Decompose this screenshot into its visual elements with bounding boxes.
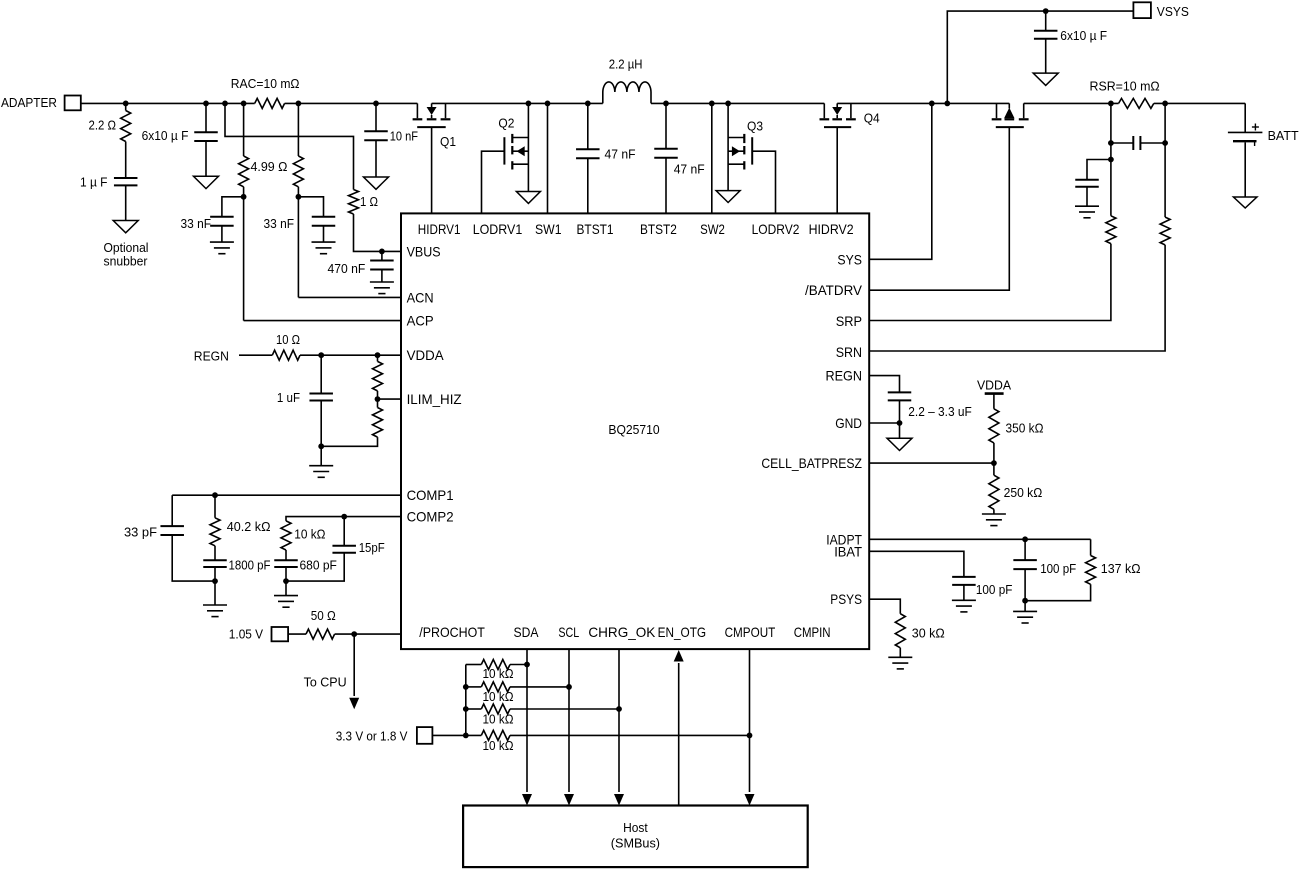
svg-text:VBUS: VBUS xyxy=(407,244,441,259)
wire 137k drop xyxy=(1090,539,1092,555)
wire IBAT line xyxy=(869,551,964,577)
inductor 2.2 uH xyxy=(603,82,651,103)
svg-text:137 kΩ: 137 kΩ xyxy=(1101,561,1141,576)
ground battery (arrow) xyxy=(1233,197,1257,208)
wire to CPU xyxy=(353,634,355,696)
wire COMP1 line xyxy=(172,494,401,496)
svg-text:RAC=10 mΩ: RAC=10 mΩ xyxy=(231,76,300,91)
wire VSYS cap lead xyxy=(1045,11,1047,31)
wire BTST1 upper xyxy=(587,103,589,149)
ground snubber (arrow) xyxy=(113,221,138,233)
svg-text:10 nF: 10 nF xyxy=(390,129,418,144)
wire pull-up r1 left xyxy=(466,664,482,666)
wire CMPOUT to host xyxy=(749,649,751,792)
resistor 10 ohm (REGN) xyxy=(272,350,300,360)
wire snubber bottom xyxy=(125,185,127,220)
node junction COMP2 xyxy=(341,514,347,520)
wire pull-up r1 right xyxy=(510,664,527,666)
wire rail RSR to battery xyxy=(1154,102,1245,104)
node junction r2 SCL xyxy=(566,684,572,690)
wire ILIM pin lead xyxy=(378,398,402,400)
node junction COMP1 foot xyxy=(212,578,218,584)
wire ACN branch vertical xyxy=(297,187,299,298)
wire COMP2 line xyxy=(286,517,401,521)
wire BATFET gate to /BATDRV xyxy=(869,127,1009,290)
transistor Q4 (high-side FET) xyxy=(823,103,825,118)
wire BTST2 lower xyxy=(665,158,667,214)
svg-text:470 nF: 470 nF xyxy=(328,261,366,276)
label battery plus xyxy=(1252,126,1259,128)
wire PSYS line xyxy=(869,599,900,614)
3.3V connector square xyxy=(417,727,433,744)
battery BATT plus plate xyxy=(1228,131,1263,133)
ground 10nF (arrow) xyxy=(364,177,389,189)
wire SRP to pin xyxy=(869,244,1111,321)
arrow EN_OTG into IC xyxy=(674,650,684,662)
wire Q2 gate to LODRV1 xyxy=(482,151,505,213)
node junction VBUS pin xyxy=(379,249,385,255)
wire SYS pin run xyxy=(869,103,932,259)
wire REGN cap bottom xyxy=(899,400,901,438)
wire SRP-SRN cap right lead xyxy=(1140,142,1165,144)
wire SW1 xyxy=(547,103,549,213)
svg-text:CELL_BATPRESZ: CELL_BATPRESZ xyxy=(761,456,862,471)
wire SRP sense drop xyxy=(1110,103,1112,143)
svg-text:/BATDRV: /BATDRV xyxy=(805,283,863,298)
1.05V connector square xyxy=(272,627,289,641)
svg-text:VDDA: VDDA xyxy=(407,348,445,363)
wire CHRG_OK to host xyxy=(618,649,620,792)
node junction r3 CHRG_OK xyxy=(616,706,622,712)
wire GND pin lead xyxy=(869,422,899,424)
svg-text:COMP2: COMP2 xyxy=(407,510,454,525)
wire SRN to pin xyxy=(869,245,1165,351)
label battery minus xyxy=(1254,142,1256,146)
wire rail inductor to Q4 xyxy=(651,102,824,104)
wire IBAT cap stem xyxy=(963,585,965,600)
arrow SCL into host xyxy=(564,794,574,806)
wire 33pF bottom xyxy=(172,535,215,581)
wire SRP gnd cap stem xyxy=(1086,187,1088,206)
wire 350k to junction xyxy=(993,443,995,463)
node junction VSYS cap xyxy=(1043,8,1049,14)
svg-text:3.3 V or 1.8 V: 3.3 V or 1.8 V xyxy=(336,728,408,743)
svg-text:PSYS: PSYS xyxy=(830,592,862,607)
wire adapter rail (input section) xyxy=(81,102,255,104)
transistor Q3 (low-side FET 2) xyxy=(727,103,729,190)
wire 250k lead xyxy=(993,463,995,475)
wire 1.05V lead xyxy=(288,633,306,635)
wire divider lower leads xyxy=(377,399,379,407)
wire IADPT line xyxy=(869,538,1090,540)
svg-text:SYS: SYS xyxy=(837,252,862,267)
capacitor 680 pF (COMP2) xyxy=(274,559,298,561)
resistor 10 kohm pull-up CMPOUT xyxy=(481,730,510,740)
svg-text:100 pF: 100 pF xyxy=(1040,561,1076,576)
resistor 4.99 ohm (ACP filter) xyxy=(239,156,249,187)
node junction GND xyxy=(897,420,903,426)
wire rail Q4 to BATFET xyxy=(837,102,1009,104)
VDDA supply bar xyxy=(985,392,1004,395)
svg-text:ACN: ACN xyxy=(407,290,434,305)
transistor BATFET xyxy=(996,103,998,118)
wire 10nF bottom xyxy=(375,140,377,177)
resistor 137 kohm xyxy=(1086,556,1096,585)
wire CELL_BATPRESZ line xyxy=(869,462,994,464)
svg-text:250 kΩ: 250 kΩ xyxy=(1004,485,1043,500)
node junction SRN cap xyxy=(1162,140,1168,146)
svg-text:350 kΩ: 350 kΩ xyxy=(1006,421,1044,436)
svg-text:BTST1: BTST1 xyxy=(577,222,614,237)
wire COMP2 foot stem xyxy=(285,581,287,596)
node junction input cap xyxy=(203,101,209,107)
svg-text:Q4: Q4 xyxy=(864,110,880,125)
wire Q3 gate to LODRV2 xyxy=(752,151,775,213)
node junction bus r3 xyxy=(463,706,469,712)
svg-text:33 nF: 33 nF xyxy=(181,216,212,231)
wire 40.2k lead xyxy=(214,495,216,518)
resistor ILIM divider lower xyxy=(373,408,383,438)
wire VDDA stem xyxy=(993,394,995,409)
resistor SRN filter xyxy=(1160,217,1170,245)
svg-text:10 kΩ: 10 kΩ xyxy=(483,712,514,727)
svg-text:GND: GND xyxy=(835,416,862,431)
svg-text:2.2 Ω: 2.2 Ω xyxy=(89,118,117,133)
resistor RAC=10 mohm (horizontal) xyxy=(255,98,285,108)
wire ACP branch upper xyxy=(243,103,245,156)
node junction ACN filter xyxy=(296,194,302,200)
node junction VDDA divider top xyxy=(375,352,381,358)
wire 1uF lead xyxy=(320,355,322,393)
wire ACN cap tap xyxy=(298,197,323,217)
resistor 4.99 ohm (ACN filter) xyxy=(293,156,303,187)
ground GND pin (arrow) xyxy=(887,438,912,450)
node junction SW1 xyxy=(545,101,551,107)
node junction COMP1 xyxy=(212,492,218,498)
wire SRP vertical upper xyxy=(1110,143,1112,216)
wire 40.2k to 1800pF xyxy=(214,546,216,561)
capacitor 47 nF (BTST1) xyxy=(576,148,600,150)
wire REGN lead xyxy=(239,354,272,356)
capacitor 1800 pF (COMP1) xyxy=(203,559,227,561)
capacitor SRP filter to gnd xyxy=(1075,179,1099,181)
svg-text:REGN: REGN xyxy=(194,348,229,363)
svg-text:REGN: REGN xyxy=(826,369,863,384)
wire SRP gnd cap tap xyxy=(1087,160,1111,180)
svg-text:SCL: SCL xyxy=(558,625,579,640)
wire ACP pin line xyxy=(244,320,401,322)
wire Q1 gate to HIDRV1 xyxy=(431,127,433,213)
svg-text:47 nF: 47 nF xyxy=(605,147,636,162)
node junction PROCHOT xyxy=(351,631,357,637)
resistor 10 kohm pull-up SDA xyxy=(481,660,510,670)
wire input cap lead xyxy=(205,103,207,132)
resistor ILIM divider upper xyxy=(373,361,383,391)
VSYS connector square xyxy=(1133,2,1151,18)
node junction Q3 drain xyxy=(725,101,731,107)
capacitor sense filter (horizontal) xyxy=(1132,136,1134,150)
capacitor 6x10 uF (input) xyxy=(194,131,218,133)
capacitor 470 nF (VBUS) xyxy=(370,260,394,262)
wire pull-up r3 leads xyxy=(466,708,482,710)
node junction Q2 drain xyxy=(526,101,532,107)
capacitor 33 nF (ACN) xyxy=(312,216,336,218)
svg-text:(SMBus): (SMBus) xyxy=(611,836,660,851)
wire 3.3V lead xyxy=(432,734,481,736)
wire rail RAC to Q1 drain xyxy=(285,102,418,104)
node junction IADPT foot xyxy=(1022,598,1028,604)
svg-text:SRN: SRN xyxy=(836,345,862,360)
node junction snubber tap xyxy=(123,101,129,107)
wire REGN pin run xyxy=(869,376,899,393)
svg-text:1.05 V: 1.05 V xyxy=(229,627,263,642)
svg-text:snubber: snubber xyxy=(104,254,149,269)
IC U1 BQ25710 body xyxy=(401,213,869,649)
wire 470nF lead xyxy=(381,251,383,260)
ground COMP1 (earth) xyxy=(203,604,227,606)
capacitor 33 nF (ACP) xyxy=(210,216,234,218)
svg-text:COMP1: COMP1 xyxy=(407,488,454,503)
wire divider upper leads xyxy=(377,355,379,361)
svg-text:2.2 – 3.3 uF: 2.2 – 3.3 uF xyxy=(908,404,972,419)
wire pull-up r4 right xyxy=(510,734,750,736)
wire SDA to host xyxy=(526,649,528,792)
capacitor 6x10 uF (VSYS) xyxy=(1034,30,1058,32)
node junction IADPT cap xyxy=(1022,536,1028,542)
ground ACN cap (earth) xyxy=(312,241,336,243)
svg-text:ADAPTER: ADAPTER xyxy=(1,95,57,110)
svg-text:To CPU: To CPU xyxy=(304,675,347,690)
svg-text:VSYS: VSYS xyxy=(1157,4,1189,19)
resistor SRP filter xyxy=(1106,216,1116,244)
wire 1 ohm to VBUS pin xyxy=(354,214,402,251)
svg-text:RSR=10 mΩ: RSR=10 mΩ xyxy=(1090,79,1160,94)
svg-text:10 Ω: 10 Ω xyxy=(276,332,300,347)
svg-text:Q1: Q1 xyxy=(440,134,456,149)
resistor 50 ohm (PROCHOT) xyxy=(306,629,335,639)
node junction SYS tap xyxy=(929,101,935,107)
svg-text:100 pF: 100 pF xyxy=(976,582,1013,597)
svg-text:50 Ω: 50 Ω xyxy=(311,608,336,623)
wire rail Q1 to inductor xyxy=(432,102,603,104)
node junction SW2 xyxy=(709,101,715,107)
capacitor 2.2-3.3 uF (REGN) xyxy=(888,391,912,393)
wire VBUS tap run xyxy=(225,103,354,189)
ground SRP cap (earth) xyxy=(1075,205,1099,207)
wire snubber top lead xyxy=(125,103,127,110)
svg-text:30 kΩ: 30 kΩ xyxy=(912,626,945,641)
ground 470nF (earth) xyxy=(370,281,394,283)
wire ACP cap stem xyxy=(221,226,223,242)
svg-text:4.99 Ω: 4.99 Ω xyxy=(251,159,288,174)
svg-text:6x10 µ F: 6x10 µ F xyxy=(1060,28,1107,43)
svg-text:EN_OTG: EN_OTG xyxy=(658,625,707,640)
wire PROCHOT line xyxy=(335,633,401,635)
arrow CHRG_OK into host xyxy=(614,794,624,806)
svg-text:10 kΩ: 10 kΩ xyxy=(483,689,514,704)
svg-text:33 pF: 33 pF xyxy=(124,525,157,540)
svg-text:SW1: SW1 xyxy=(535,222,562,237)
resistor 250 kohm xyxy=(989,475,999,509)
capacitor 47 nF (BTST2) xyxy=(654,148,678,150)
node junction SRP gnd cap xyxy=(1108,157,1114,163)
svg-text:HIDRV1: HIDRV1 xyxy=(418,222,461,237)
node junction RAC right xyxy=(296,101,302,107)
node junction RSR right xyxy=(1162,101,1168,107)
ground Q3 source (arrow) xyxy=(716,191,740,203)
wire IADPT cap lead xyxy=(1024,539,1026,560)
capacitor 100 pF (IBAT) xyxy=(952,576,976,578)
svg-text:SW2: SW2 xyxy=(700,222,725,237)
wire pull-up bus xyxy=(465,665,467,736)
transistor Q2 (low-side FET 1) xyxy=(527,103,529,191)
resistor 10 kohm (COMP2) xyxy=(281,521,291,550)
wire VSYS riser and rail xyxy=(947,11,1133,103)
resistor 10 kohm pull-up SCL xyxy=(481,682,510,692)
wire 137k bottom xyxy=(1025,584,1091,600)
node junction bus r2 xyxy=(463,684,469,690)
svg-text:1800 pF: 1800 pF xyxy=(229,558,271,573)
svg-text:CMPOUT: CMPOUT xyxy=(725,625,776,640)
svg-text:1 Ω: 1 Ω xyxy=(360,194,378,209)
svg-text:ACP: ACP xyxy=(407,314,434,329)
svg-text:Host: Host xyxy=(623,820,648,835)
wire input cap bottom xyxy=(205,141,207,176)
svg-text:/PROCHOT: /PROCHOT xyxy=(419,625,485,640)
wire EN_OTG from host xyxy=(678,663,680,806)
wire IADPT cap bottom xyxy=(1024,569,1026,601)
node junction divider foot xyxy=(318,443,324,449)
wire rail BATFET to RSR xyxy=(1024,102,1119,104)
svg-text:Q2: Q2 xyxy=(498,116,514,131)
node junction ILIM_HIZ xyxy=(375,396,381,402)
svg-text:BQ25710: BQ25710 xyxy=(608,422,659,437)
svg-text:SRP: SRP xyxy=(836,314,862,329)
wire battery top lead xyxy=(1244,103,1246,132)
node junction RAC left xyxy=(241,101,247,107)
svg-text:40.2 kΩ: 40.2 kΩ xyxy=(227,519,271,534)
svg-text:2.2 µH: 2.2 µH xyxy=(609,57,643,72)
svg-text:Q3: Q3 xyxy=(747,118,763,133)
transistor Q1 (ACFET) xyxy=(416,103,418,118)
node junction CELL divider xyxy=(991,460,997,466)
battery BATT minus plate xyxy=(1233,140,1257,142)
svg-text:IBAT: IBAT xyxy=(834,544,862,559)
svg-text:BATT: BATT xyxy=(1268,128,1299,143)
resistor 40.2 kohm (COMP1) xyxy=(210,518,220,546)
svg-text:CMPIN: CMPIN xyxy=(794,625,831,640)
node junction r4 CMPOUT xyxy=(747,733,753,739)
capacitor 33 pF (COMP1) xyxy=(160,525,184,527)
svg-text:1 uF: 1 uF xyxy=(277,390,300,405)
resistor 2.2 ohm (snubber) xyxy=(121,111,131,142)
wire SRP-SRN cap left lead xyxy=(1111,142,1133,144)
Host (SMBus) box xyxy=(463,806,808,868)
resistor 10 kohm pull-up CHRG_OK xyxy=(481,704,510,714)
wire 33pF left drop xyxy=(171,495,173,526)
node junction bus r4 xyxy=(463,733,469,739)
ground 250k (earth) xyxy=(982,513,1006,515)
node junction VSYS riser xyxy=(944,101,950,107)
node junction SRP cap xyxy=(1108,140,1114,146)
svg-text:47 nF: 47 nF xyxy=(674,162,705,177)
svg-text:BTST2: BTST2 xyxy=(640,222,677,237)
wire REGN to VDDA pin xyxy=(300,354,401,356)
arrow to CPU xyxy=(349,698,359,710)
node junction BTST2 xyxy=(663,101,669,107)
wire SCL to host xyxy=(568,649,570,792)
ground Q2 source (arrow) xyxy=(516,192,540,204)
wire 470nF stem xyxy=(381,270,383,283)
wire ACP branch vertical xyxy=(243,187,245,321)
svg-text:10 kΩ: 10 kΩ xyxy=(483,738,514,753)
wire SRN vertical upper xyxy=(1164,143,1166,217)
svg-text:LODRV1: LODRV1 xyxy=(473,222,523,237)
resistor 30 kohm (PSYS) xyxy=(895,614,905,648)
ground input cap (arrow) xyxy=(194,176,219,188)
wire IADPT foot stem xyxy=(1024,601,1026,612)
wire 1800pF bottom xyxy=(214,567,216,581)
svg-text:CHRG_OK: CHRG_OK xyxy=(588,625,656,640)
node junction BTST1 xyxy=(585,101,591,107)
resistor RSR=10 mohm (horizontal) xyxy=(1119,98,1154,108)
wire 1uF bottom xyxy=(320,401,322,447)
resistor 1 ohm (VBUS filter) xyxy=(349,190,359,215)
wire SW2 xyxy=(711,103,713,213)
node junction 10nF tap xyxy=(373,101,379,107)
wire ACN branch upper xyxy=(297,103,299,156)
wire 15pF drop xyxy=(343,517,345,546)
wire ACN cap stem xyxy=(323,226,325,242)
svg-text:680 pF: 680 pF xyxy=(300,558,337,573)
svg-text:SDA: SDA xyxy=(514,625,540,640)
node junction VBUS tap xyxy=(222,101,228,107)
ground VSYS cap (arrow) xyxy=(1033,73,1058,85)
svg-text:33 nF: 33 nF xyxy=(264,216,295,231)
wire divider foot stem xyxy=(320,446,322,465)
ground divider (earth) xyxy=(309,465,333,467)
node junction ACP filter xyxy=(241,194,247,200)
svg-text:15pF: 15pF xyxy=(359,540,385,555)
capacitor 15 pF (COMP2) xyxy=(332,545,356,547)
svg-text:ILIM_HIZ: ILIM_HIZ xyxy=(407,392,462,407)
wire Q4 gate to HIDRV2 xyxy=(836,127,838,213)
svg-text:10 kΩ: 10 kΩ xyxy=(294,527,325,542)
wire COMP1 foot stem xyxy=(214,581,216,605)
wire 30k stem xyxy=(899,648,901,658)
node junction COMP2 foot xyxy=(283,578,289,584)
ground ACP cap (earth) xyxy=(210,241,234,243)
wire ACN pin line xyxy=(298,296,401,298)
capacitor 100 pF (IADPT) xyxy=(1013,559,1037,561)
svg-text:10 kΩ: 10 kΩ xyxy=(483,666,514,681)
svg-text:1 µ F: 1 µ F xyxy=(80,174,108,189)
wire 10nF lead xyxy=(375,103,377,131)
arrow CMPOUT into host xyxy=(745,794,755,806)
ground IBAT (earth) xyxy=(952,599,976,601)
node junction RSR left xyxy=(1108,101,1114,107)
wire 250k stem xyxy=(993,509,995,514)
wire BTST1 lower xyxy=(587,158,589,213)
svg-text:LODRV2: LODRV2 xyxy=(752,222,800,237)
capacitor 1 uF (snubber) xyxy=(114,177,138,179)
ground PSYS (earth) xyxy=(888,656,912,658)
svg-text:VDDA: VDDA xyxy=(977,378,1011,393)
arrow SDA into host xyxy=(522,794,532,806)
capacitor 10 nF (Q1 drain) xyxy=(364,130,388,132)
capacitor 1 uF (VDDA) xyxy=(309,393,333,395)
resistor 350 kohm xyxy=(989,409,999,443)
